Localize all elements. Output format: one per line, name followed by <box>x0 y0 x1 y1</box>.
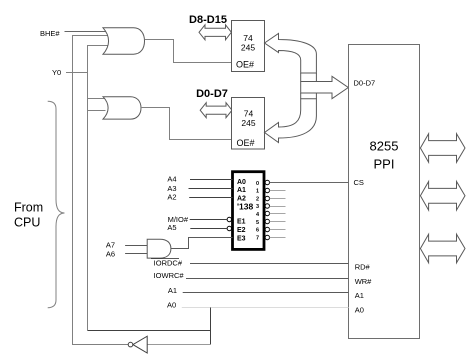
svg-text:74: 74 <box>244 109 254 119</box>
or-gate U2 (low byte enable) <box>103 97 141 119</box>
svg-text:5: 5 <box>256 220 259 226</box>
brace From CPU <box>48 101 65 307</box>
svg-text:A4: A4 <box>167 174 176 183</box>
wire A2 to decoder A2 <box>189 197 232 199</box>
svg-text:'138: '138 <box>237 202 253 212</box>
svg-text:A1: A1 <box>355 291 364 300</box>
bubble inverter output <box>128 342 133 347</box>
svg-text:PPI: PPI <box>374 157 395 172</box>
port arrow A <box>420 134 465 163</box>
svg-text:CPU: CPU <box>14 216 40 230</box>
port arrow B <box>420 182 465 211</box>
svg-text:A7: A7 <box>106 241 115 250</box>
svg-text:E2: E2 <box>237 227 246 234</box>
bus big arrow into 8255 D0-D7 <box>301 76 349 98</box>
svg-text:IOWRC#: IOWRC# <box>154 271 185 280</box>
svg-text:0: 0 <box>256 181 259 187</box>
decoder U6 '138 <box>233 172 265 250</box>
wire IOWRC# to WR# <box>186 278 349 280</box>
svg-text:E1: E1 <box>237 219 246 226</box>
svg-text:A0: A0 <box>237 179 246 186</box>
wire trunk left wall joints <box>300 73 302 82</box>
svg-text:6: 6 <box>256 228 259 234</box>
svg-text:IORDC#: IORDC# <box>154 258 183 267</box>
wire AND output to decoder E3 <box>171 238 233 249</box>
wire A1 to 8255 <box>183 292 349 294</box>
bubble E1 <box>227 217 231 221</box>
wire A6 to AND <box>125 253 147 255</box>
svg-text:A1: A1 <box>237 187 246 194</box>
svg-text:From: From <box>14 201 43 215</box>
wire OR2 input 2 <box>88 110 106 112</box>
wire Y0 to vertical net <box>66 72 88 74</box>
wire BHE# to OR1 input <box>65 31 109 33</box>
chip U5 8255 PPI <box>349 45 420 339</box>
svg-text:245: 245 <box>241 43 255 53</box>
svg-text:BHE#: BHE# <box>40 29 60 38</box>
bus arrow D8-D15 <box>199 25 231 40</box>
svg-text:D8-D15: D8-D15 <box>189 14 227 26</box>
svg-text:A0: A0 <box>167 301 176 310</box>
bus band from 245#2 to 8255 (curved arrow) <box>265 99 317 143</box>
bus arrow D0-D7 <box>200 103 232 118</box>
wire OR2 input 1 <box>88 98 107 100</box>
svg-text:A6: A6 <box>106 249 115 258</box>
inverter U8 <box>133 336 147 353</box>
and-gate U7 <box>147 239 171 258</box>
wire M/IO# to decoder E1 <box>190 219 227 221</box>
wire inverter input <box>147 344 210 346</box>
wire A4 to decoder A0 <box>190 179 233 181</box>
svg-text:A0: A0 <box>355 306 364 315</box>
svg-text:D0-D7: D0-D7 <box>354 79 376 88</box>
svg-text:A1: A1 <box>168 286 177 295</box>
svg-text:245: 245 <box>241 118 255 128</box>
wire decoder output 0 to CS <box>270 182 349 184</box>
wire A3 to decoder A1 <box>189 188 233 190</box>
wire stubs outputs 1-7 <box>270 191 286 238</box>
svg-text:D0-D7: D0-D7 <box>196 88 228 100</box>
buffer U4 74245 low byte <box>232 98 265 150</box>
svg-text:2: 2 <box>256 196 259 202</box>
svg-text:7: 7 <box>256 235 259 241</box>
svg-text:Y0: Y0 <box>52 68 61 77</box>
svg-text:A5: A5 <box>167 223 176 232</box>
buffer U3 74245 high byte <box>232 21 265 72</box>
svg-text:E3: E3 <box>237 236 246 243</box>
svg-text:RD#: RD# <box>355 263 371 272</box>
svg-text:8255: 8255 <box>370 139 399 154</box>
wire IORDC# to RD# <box>190 263 349 265</box>
wire A0 tap vertical <box>210 308 212 345</box>
wire OR1 output to 245#1 OE# <box>145 40 232 63</box>
bubble E2 <box>227 226 231 230</box>
bubbles outputs 0-7 <box>265 180 269 239</box>
svg-text:3: 3 <box>256 204 259 210</box>
wire inverted-A0 vertical feedback <box>73 36 129 345</box>
port arrow C <box>420 234 465 263</box>
wire A7 to AND <box>125 245 147 247</box>
svg-text:WR#: WR# <box>355 277 372 286</box>
svg-text:A2: A2 <box>167 192 176 201</box>
svg-text:1: 1 <box>256 189 259 195</box>
svg-text:74: 74 <box>243 33 253 43</box>
or-gate U1 (high byte enable) <box>103 28 145 54</box>
wire A0 to 8255 (light) <box>182 307 349 309</box>
wire A0 to OR2 branch <box>88 330 211 332</box>
bus band from 245#1 to 8255 (curved arrow) <box>265 34 317 74</box>
wire trunk right wall joints <box>315 73 317 82</box>
svg-text:OE#: OE# <box>237 138 255 148</box>
wire OR2 output to 245#2 OE# <box>141 108 232 140</box>
wire Y0/A0 vertical net <box>88 46 111 331</box>
svg-text:CS: CS <box>354 178 364 187</box>
svg-text:OE#: OE# <box>236 60 254 70</box>
wire A5 to decoder E2 <box>190 228 227 230</box>
